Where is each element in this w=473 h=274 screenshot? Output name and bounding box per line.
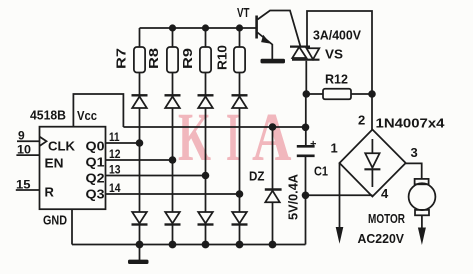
arrow AC input right (below motor) [418,228,426,246]
svg-text:4: 4 [381,186,389,201]
wire pin15 stub [16,189,40,191]
wire column 1 middle [139,108,141,212]
wire Vcc loop [73,94,123,127]
junction Q0 / column 1 [136,139,144,147]
wire GND stem [71,209,73,244]
svg-text:R7: R7 [115,48,129,69]
svg-text:R12: R12 [325,72,348,87]
wire column 1 bottom [139,225,141,244]
wire +5V rail [123,126,305,128]
svg-text:I: I [226,99,240,175]
svg-text:13: 13 [109,163,121,177]
svg-text:5V/0.4A: 5V/0.4A [287,174,301,220]
diode lower column 4 (cathode down) [232,212,248,225]
wire column 3 top [205,28,207,47]
svg-text:10: 10 [17,143,31,157]
wire top rail [140,27,256,29]
svg-text:VT: VT [237,5,250,20]
svg-text:3: 3 [411,145,418,160]
resistor R12 [306,93,323,95]
wire bottom rail [72,244,306,246]
wire column 2 top [172,28,174,47]
wire pin9 stub [17,140,40,142]
junction top rail / R10 [236,24,243,31]
svg-text:11: 11 [109,130,120,144]
junction top rail / R8 [169,24,176,31]
wire column 2 bottom [172,225,174,244]
wire column 4 middle [239,108,241,212]
zener DZ column [272,127,274,189]
wire Q3 [106,193,240,195]
svg-text:Q3: Q3 [86,187,105,202]
svg-text:EN: EN [45,156,64,171]
svg-text:15: 15 [16,178,31,192]
junction Q3 / column 4 [236,190,244,198]
wire column 3 bottom [205,225,207,244]
svg-text:Vcc: Vcc [77,108,97,123]
diode lower column 2 (cathode down) [165,212,181,225]
wire node1 down [339,163,341,227]
wire C1 column [305,94,307,146]
junction bottom rail / column 1 [136,241,144,249]
junction Q2 / column 3 [202,172,210,180]
junction bottom rail / column 4 [236,241,244,249]
triac left triangle [292,47,306,58]
diode lower column 3 (cathode down) [198,212,214,225]
svg-text:R8: R8 [147,48,161,69]
wire column 1 resistor to diode [139,73,141,96]
wire motor down [421,215,423,228]
resistor R7 [134,47,145,73]
svg-text:R9: R9 [181,48,195,69]
diode lower column 1 (cathode down) [132,212,148,225]
resistor R8 [167,47,178,73]
top box wires [307,11,372,130]
watermark KIA [178,99,292,175]
wire column 3 middle [205,108,207,212]
junction bottom rail / DZ [269,241,277,249]
svg-text:1: 1 [331,141,338,156]
svg-text:Q0: Q0 [86,139,105,154]
svg-text:9: 9 [18,129,25,143]
svg-text:DZ: DZ [249,169,265,184]
wire column 4 resistor to diode [239,73,241,96]
junction top rail / R9 [202,24,209,31]
junction bottom rail / column 2 [169,241,177,249]
wire column 1 top [139,28,141,47]
svg-text:GND: GND [43,213,67,228]
wire Q2 [106,175,206,177]
bridge inner diode [371,139,373,153]
svg-text:MOTOR: MOTOR [368,211,405,226]
VT emitter [258,33,273,60]
svg-text:C1: C1 [314,164,328,179]
wire column 4 top [239,28,241,47]
svg-text:12: 12 [109,147,121,161]
svg-text:R10: R10 [216,45,230,70]
junction C1 / node 4 line [302,192,310,200]
svg-text:3A/400V: 3A/400V [313,29,362,43]
svg-text:2: 2 [358,113,365,128]
junction bottom rail / column 3 [202,241,210,249]
motor M brushes [415,179,429,184]
diode upper column 4 (cathode up) [232,95,248,108]
ground bottom rail [128,245,149,265]
arrow AC input left (node 1) [336,227,344,244]
triac right triangle [307,48,320,59]
svg-text:Q1: Q1 [86,155,105,170]
triac VS top bar [290,45,310,47]
capacitor C1 plates [297,145,315,148]
wire node4 line [306,194,373,196]
bridge rectifier diamond [340,130,406,197]
wire C1 bottom [305,156,307,245]
diode upper column 2 (cathode up) [165,95,181,108]
svg-text:14: 14 [109,181,121,195]
junction +5V / DZ [269,123,277,131]
VT emitter arrowhead [261,35,271,44]
wire Q1 [106,159,173,161]
diode upper column 1 (cathode up) [132,95,148,108]
IC U1 4518B box [40,127,106,210]
svg-text:1N4007x4: 1N4007x4 [376,117,445,131]
wire column 2 middle [172,108,174,212]
junction R12 right / node 2 [368,90,376,98]
junction Q1 / column 2 [169,156,177,164]
svg-text:CLK: CLK [48,139,76,154]
C1 plus mark [311,141,317,146]
clock chevron [40,137,47,146]
svg-text:R: R [45,185,55,200]
wire Q0 [106,142,140,144]
transistor VT base bar [255,16,258,39]
diode upper column 3 (cathode up) [198,95,214,108]
triac bottom bar [292,59,320,61]
junction R12 left [303,90,311,98]
svg-text:Q2: Q2 [86,171,105,186]
svg-text:VS: VS [325,47,343,62]
wire column 3 resistor to diode [205,73,207,96]
wire pin10 stub [16,154,39,156]
zener DZ [265,188,282,190]
ground VT [261,59,286,64]
resistor R10 [234,47,245,73]
wire column 4 bottom [239,225,241,244]
resistor R9 [200,47,211,73]
svg-text:AC220V: AC220V [358,231,405,246]
junction +5V / C1 [302,124,310,132]
wire column 2 resistor to diode [172,73,174,96]
svg-text:4518B: 4518B [30,109,66,123]
VT collector [258,11,301,47]
wire node3 to motor [406,163,422,179]
wire triac to R12 node [305,61,307,94]
